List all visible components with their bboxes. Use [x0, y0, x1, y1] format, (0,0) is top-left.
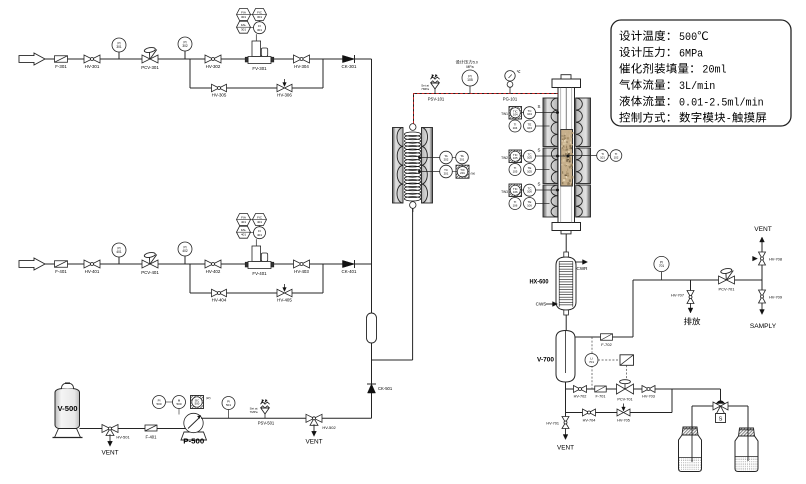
svg-text:501: 501	[226, 403, 231, 407]
svg-text:P-500: P-500	[183, 437, 204, 446]
svg-text:301: 301	[257, 15, 262, 19]
svg-text:500: 500	[156, 402, 161, 406]
svg-text:HV-304: HV-304	[294, 64, 309, 69]
svg-text:VENT: VENT	[557, 445, 574, 452]
svg-text:FIC: FIC	[257, 11, 263, 15]
svg-text:202: 202	[444, 157, 449, 161]
svg-text:500: 500	[679, 32, 697, 44]
svg-text:℃: ℃	[517, 70, 521, 74]
svg-text:301: 301	[116, 45, 122, 49]
svg-text:CWR: CWR	[577, 266, 589, 271]
svg-text:302: 302	[182, 44, 188, 48]
svg-text:106: 106	[513, 203, 518, 207]
svg-text:105: 105	[513, 169, 518, 173]
svg-text:701: 701	[659, 264, 665, 268]
svg-text:HV-301: HV-301	[85, 64, 100, 69]
svg-text:105: 105	[513, 156, 518, 160]
svg-text:F-701: F-701	[596, 395, 606, 399]
svg-text:TW2: TW2	[501, 156, 508, 160]
svg-text:500: 500	[176, 402, 181, 406]
svg-text:FV-301: FV-301	[252, 66, 267, 71]
svg-text:106: 106	[513, 190, 518, 194]
svg-text:HV-704: HV-704	[583, 419, 596, 423]
svg-text:7MPa: 7MPa	[421, 87, 429, 91]
svg-text:FIA: FIA	[241, 11, 246, 15]
svg-text:PCV-701: PCV-701	[617, 398, 632, 402]
svg-text:401: 401	[116, 250, 122, 254]
svg-text:HV-402: HV-402	[206, 269, 221, 274]
svg-text:104: 104	[527, 112, 532, 116]
svg-text:5.0: 5.0	[473, 61, 478, 65]
svg-text:VENT: VENT	[101, 450, 118, 457]
svg-text:105: 105	[527, 169, 532, 173]
svg-text:F-702: F-702	[601, 342, 612, 347]
svg-text:104: 104	[513, 112, 518, 116]
svg-text:201: 201	[460, 171, 465, 175]
svg-text:CK-501: CK-501	[378, 386, 393, 391]
svg-text:0.01-2.5ml/min: 0.01-2.5ml/min	[679, 97, 764, 109]
svg-text:500: 500	[195, 402, 200, 406]
svg-text:701: 701	[589, 360, 594, 364]
svg-text:HV-708: HV-708	[769, 257, 782, 262]
svg-text:HV-305: HV-305	[212, 93, 227, 98]
svg-text:CWS: CWS	[536, 302, 547, 307]
svg-text:PG-101: PG-101	[503, 97, 518, 102]
svg-text:HV-702: HV-702	[574, 395, 587, 399]
svg-text:401: 401	[257, 220, 262, 224]
svg-text:S: S	[538, 182, 541, 187]
svg-text:HV-502: HV-502	[322, 425, 336, 430]
svg-text:F-401: F-401	[55, 269, 67, 274]
svg-text:CK-301: CK-301	[342, 64, 357, 69]
svg-text:FIA: FIA	[241, 216, 246, 220]
svg-text:FIC: FIC	[257, 216, 263, 220]
svg-text:7MPa: 7MPa	[250, 410, 258, 414]
svg-text:104: 104	[513, 126, 518, 130]
svg-text:3L/min: 3L/min	[679, 81, 715, 93]
svg-text:VENT: VENT	[305, 439, 322, 446]
svg-text:106: 106	[527, 203, 532, 207]
svg-text:V-500: V-500	[58, 404, 78, 413]
svg-text:HV-401: HV-401	[85, 269, 100, 274]
svg-text:(W): (W)	[206, 396, 211, 400]
svg-text:PCV-301: PCV-301	[141, 65, 159, 70]
svg-text:VENT: VENT	[754, 226, 772, 233]
svg-text:(W): (W)	[471, 172, 476, 176]
svg-text:201: 201	[460, 157, 465, 161]
svg-text:105: 105	[527, 156, 532, 160]
svg-text:401: 401	[241, 220, 246, 224]
svg-text:106: 106	[527, 190, 532, 194]
svg-text:S: S	[538, 104, 541, 109]
svg-text:104: 104	[527, 126, 532, 130]
svg-text:102: 102	[614, 155, 619, 159]
svg-text:301: 301	[257, 28, 262, 32]
svg-text:HV-404: HV-404	[212, 298, 227, 303]
svg-text:402: 402	[182, 249, 188, 253]
svg-text:HV-302: HV-302	[206, 64, 221, 69]
svg-text:TW3: TW3	[501, 190, 508, 194]
svg-text:F-301: F-301	[55, 64, 67, 69]
svg-text:HV-705: HV-705	[617, 419, 630, 423]
svg-text:V-700: V-700	[537, 357, 555, 364]
svg-text:HV-306: HV-306	[277, 93, 292, 98]
svg-text:PCV-401: PCV-401	[141, 270, 159, 275]
svg-text:301: 301	[241, 28, 246, 32]
svg-text:HV-403: HV-403	[294, 269, 309, 274]
svg-text:FV-401: FV-401	[252, 271, 267, 276]
svg-text:105: 105	[467, 78, 473, 82]
svg-text:PCV-701: PCV-701	[718, 287, 735, 292]
svg-text:401: 401	[257, 233, 262, 237]
svg-text:301: 301	[241, 15, 246, 19]
svg-text:TW1: TW1	[501, 112, 508, 116]
svg-text:S: S	[719, 417, 723, 423]
svg-text:FAL: FAL	[241, 23, 247, 27]
svg-text:101: 101	[600, 155, 605, 159]
svg-text:HV-707: HV-707	[671, 293, 684, 298]
svg-text:S: S	[538, 148, 541, 153]
svg-text:PSV-501: PSV-501	[258, 421, 275, 426]
svg-text:HV-405: HV-405	[277, 298, 292, 303]
svg-text:HV-701: HV-701	[546, 422, 559, 426]
svg-text:20ml: 20ml	[702, 65, 726, 77]
svg-text:FAL: FAL	[241, 228, 247, 232]
svg-text:HV-703: HV-703	[642, 395, 655, 399]
svg-text:SAMPLY: SAMPLY	[750, 323, 777, 330]
svg-text:-: -	[726, 114, 732, 126]
svg-text:CK-401: CK-401	[342, 269, 357, 274]
svg-text:HX-600: HX-600	[530, 279, 549, 286]
svg-text:MPa: MPa	[466, 65, 473, 69]
svg-text:201: 201	[444, 171, 449, 175]
svg-text:6MPa: 6MPa	[679, 48, 703, 60]
svg-text:HV-709: HV-709	[769, 295, 782, 300]
svg-text:PSV-101: PSV-101	[428, 97, 445, 102]
svg-text:F-401: F-401	[146, 435, 158, 440]
svg-text:401: 401	[241, 233, 246, 237]
svg-text:HV-501: HV-501	[116, 435, 130, 440]
